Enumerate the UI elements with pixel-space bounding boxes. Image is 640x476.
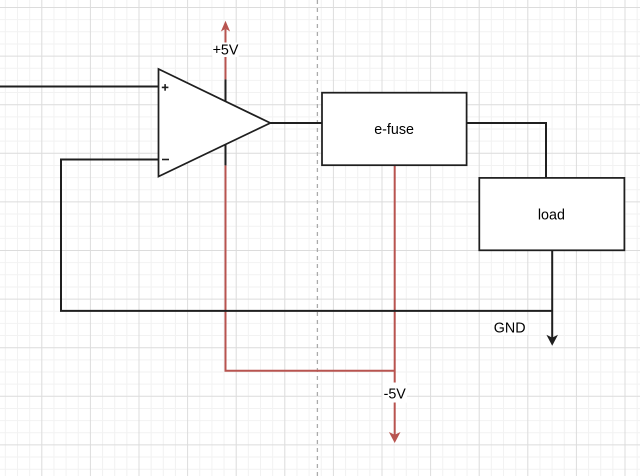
svg-text:load: load — [538, 207, 565, 223]
svg-text:GND: GND — [494, 321, 526, 337]
svg-text:+5V: +5V — [213, 43, 239, 59]
svg-text:-5V: -5V — [384, 387, 407, 403]
svg-text:e-fuse: e-fuse — [374, 122, 414, 138]
